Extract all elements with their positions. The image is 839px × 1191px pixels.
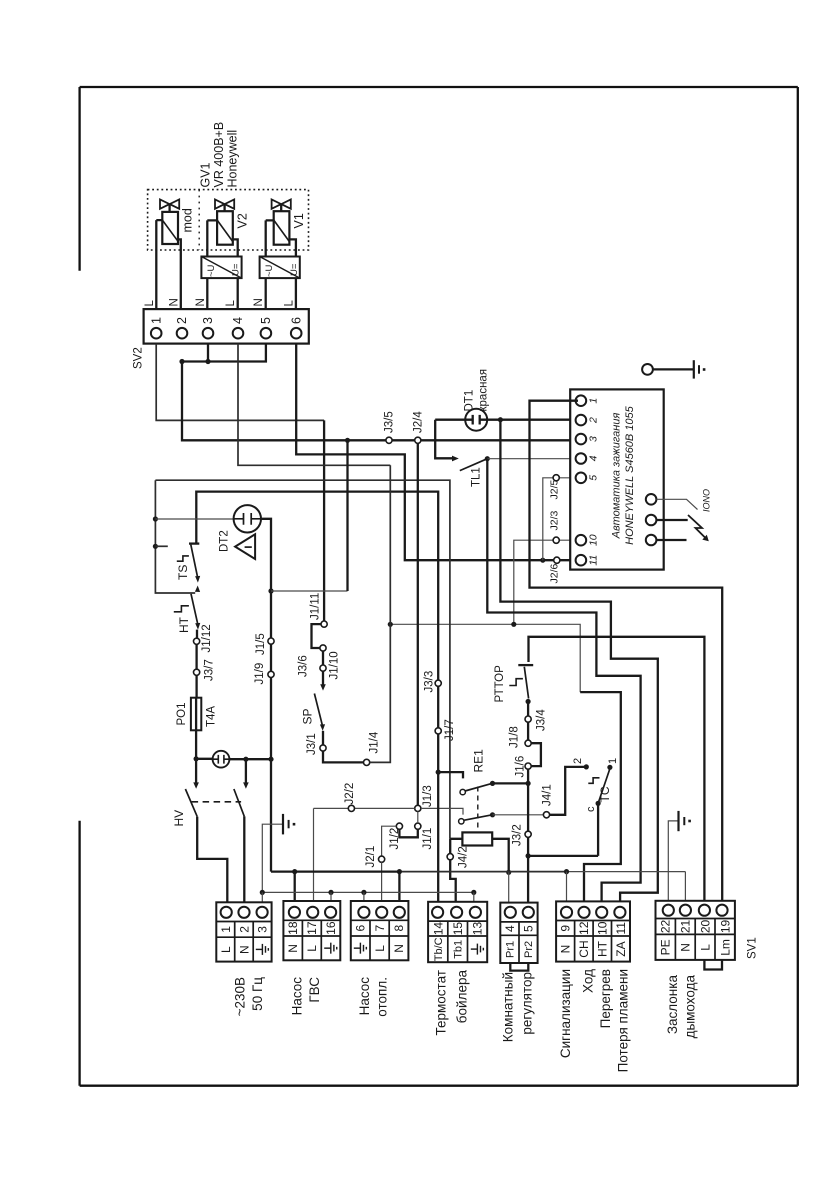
terminal block DHW pump earth mark cell 16: [324, 943, 337, 954]
svg-text:J2/6: J2/6: [549, 563, 561, 583]
connector J4/2: [447, 854, 453, 860]
connector J1/3: [415, 805, 421, 811]
frame border left lower segment: [78, 821, 80, 1086]
svg-text:Заслонка: Заслонка: [665, 975, 680, 1035]
junction N9: [564, 869, 569, 874]
terminal block heating pump terminal 6 circle: [358, 907, 369, 918]
ignition terminal 2 circle: [576, 415, 587, 426]
svg-text:L: L: [225, 300, 237, 307]
svg-text:14: 14: [431, 922, 445, 936]
connector J2/6: [554, 557, 560, 563]
svg-text:J3/2: J3/2: [512, 824, 524, 846]
HV right contact arrow: [243, 782, 249, 788]
TC contact 2: [584, 764, 589, 769]
ignition terminal 3 circle: [576, 434, 587, 445]
junction PTTOP arm bottom: [526, 699, 531, 704]
terminal block mains 230V terminal 1 circle: [221, 907, 232, 918]
junction CH line at J2/3 riser: [511, 622, 516, 627]
svg-text:J1/1: J1/1: [422, 828, 434, 850]
ignition electrode terminal C circle: [646, 535, 657, 546]
junction ground bus 13: [471, 890, 476, 895]
svg-text:бойлера: бойлера: [454, 970, 469, 1024]
ignition terminal 4 circle: [576, 453, 587, 464]
svg-text:N: N: [392, 944, 406, 953]
ignition electrode terminal A circle: [646, 494, 657, 505]
connector J2/1: [379, 856, 385, 862]
svg-text:20: 20: [698, 919, 712, 933]
ignition terminal 11 circle: [576, 555, 587, 566]
HV left contact arrow: [193, 782, 199, 788]
wire J1/5 to J1/9: [270, 644, 272, 671]
connector J3/3: [435, 680, 441, 686]
svg-text:RE1: RE1: [471, 749, 485, 773]
wire J3/6 to J1/10: [322, 651, 324, 665]
earth symbol top right: [693, 360, 695, 378]
svg-text:17: 17: [305, 921, 319, 935]
wire RE1 upper arm to J column: [493, 782, 529, 784]
wire Pr1 riser: [508, 872, 510, 902]
lamp DT1: [465, 409, 487, 431]
svg-text:IONO: IONO: [702, 489, 712, 512]
connector J1/5: [268, 638, 274, 644]
terminal block DHW pump body: [283, 901, 340, 960]
connector J2/4: [415, 437, 421, 443]
terminal block room regulator body: [500, 903, 537, 963]
valve symbol V2: [215, 199, 234, 208]
ignition electrode terminal B circle: [646, 515, 657, 526]
terminal block heating pump earth mark cell 6: [354, 943, 367, 954]
relay RE1 coil: [462, 832, 492, 845]
svg-text:8: 8: [392, 924, 406, 931]
wire DT2 to J1/5 column: [261, 519, 271, 638]
svg-text:6: 6: [354, 924, 368, 931]
wire RE1 lower arm to J4/1: [493, 814, 544, 816]
svg-text:HT: HT: [177, 616, 191, 633]
rectifier U2 for V1: [260, 257, 300, 279]
svg-text:J1/12: J1/12: [201, 624, 213, 652]
fuse PO1 T4A: [191, 698, 201, 731]
svg-text:6: 6: [289, 317, 303, 324]
PTTOP fixed contact bar: [518, 664, 533, 666]
svg-text:J1/5: J1/5: [255, 633, 267, 655]
wire J1/7 to boiler stat Tb/C: [437, 734, 439, 902]
svg-text:4: 4: [503, 925, 517, 932]
wire N riser from 440 line: [346, 440, 348, 591]
svg-text:J2/4: J2/4: [412, 411, 424, 433]
lamp DT2: [234, 505, 261, 532]
svg-text:Потеря пламени: Потеря пламени: [616, 969, 631, 1072]
HV mechanical link dashed: [192, 801, 242, 803]
junction TL1 arm pivot: [485, 456, 490, 461]
svg-text:L: L: [144, 300, 156, 307]
wire mod coil N to SV2-2: [178, 239, 181, 309]
junction TC pivot C: [596, 801, 601, 806]
svg-text:V1: V1: [292, 213, 306, 228]
junction DT2 column branch: [268, 588, 273, 593]
junction ground bus 6: [361, 890, 366, 895]
svg-text:J2/1: J2/1: [365, 846, 377, 868]
svg-text:HT: HT: [596, 940, 610, 957]
wire J3/3 to J1/7: [437, 686, 439, 728]
terminal block room regulator terminal 4 circle: [505, 907, 516, 918]
wire TS bracket: [155, 480, 195, 593]
wire J2/4 riser to J1/3: [417, 443, 419, 805]
wire N9 riser: [566, 872, 568, 902]
switch TC arm: [598, 770, 610, 804]
terminal block boiler thermostat terminal 15 circle: [451, 907, 462, 918]
connector J1/8: [525, 740, 531, 746]
svg-text:PO1: PO1: [176, 702, 188, 725]
svg-text:3: 3: [588, 436, 600, 442]
wire HT overheat signal from TL1 node: [487, 459, 640, 902]
earth symbol near HV: [282, 814, 284, 835]
rectifier U1 for V2: [201, 257, 241, 279]
terminal block heating pump terminal 7 circle: [376, 907, 387, 918]
ignition automat U3 box: [570, 389, 664, 569]
svg-text:TS: TS: [176, 565, 190, 580]
connector J1/12: [194, 638, 200, 644]
svg-text:Термостат: Термостат: [434, 970, 449, 1035]
svg-text:2: 2: [175, 317, 189, 324]
svg-text:L: L: [219, 946, 233, 953]
wire V2 coil to rectifier right: [233, 239, 238, 256]
valve symbol mod: [160, 199, 179, 208]
wire J1/11 riser: [323, 420, 325, 621]
switch SP arm: [314, 694, 322, 726]
svg-text:J1/8: J1/8: [509, 726, 521, 748]
wire J1/10 to SP contact: [322, 671, 324, 684]
wire L Lm jumper: [704, 960, 722, 970]
wire RE1 coil left to J4/2: [450, 839, 462, 854]
SV2 terminal 3 circle: [203, 328, 214, 339]
wire N21 riser: [684, 872, 686, 901]
svg-text:5: 5: [259, 317, 273, 324]
svg-text:T4A: T4A: [205, 706, 217, 727]
terminal block boiler thermostat terminal 14 circle: [432, 907, 443, 918]
svg-text:Lm: Lm: [718, 939, 732, 956]
spark gap symbol: [688, 515, 707, 540]
connector J1/9: [268, 671, 274, 677]
svg-text:J1/4: J1/4: [369, 731, 381, 753]
terminal block heating pump terminal 8 circle: [394, 907, 405, 918]
wire SV2-6 to ignition terminal 11: [296, 344, 578, 561]
svg-text:Honeywell: Honeywell: [226, 130, 240, 188]
wire ignition electrode lower: [656, 539, 686, 541]
SV2 terminal 6 circle: [291, 328, 302, 339]
svg-text:5: 5: [588, 475, 600, 481]
wire J1/1 to J1/3: [417, 812, 419, 824]
svg-text:J1/6: J1/6: [515, 756, 527, 778]
junction HV right branch: [243, 757, 248, 762]
junction J1/6 column at RE1 line: [526, 781, 531, 786]
thermostat TS arm: [191, 545, 198, 578]
terminal block SV1 flue damper terminal 22 circle: [663, 905, 674, 916]
ignition terminal 10 circle: [576, 535, 587, 546]
wire PE22 riser to earth: [668, 821, 678, 901]
svg-text:регулятор: регулятор: [520, 972, 535, 1035]
terminal block DHW pump terminal 16 circle: [325, 907, 336, 918]
svg-text:22: 22: [659, 919, 673, 933]
svg-text:Tb/C: Tb/C: [433, 937, 445, 961]
earth symbol near SV1: [677, 811, 679, 831]
ignition terminal 1 circle: [576, 395, 587, 406]
wire RE1 upper fixed stub: [438, 772, 463, 778]
svg-text:J1/7: J1/7: [444, 719, 456, 741]
connector J2/5: [553, 475, 559, 481]
svg-text:Перегрев: Перегрев: [598, 969, 613, 1028]
wire SV2-4 line to J1/4 riser: [238, 344, 390, 466]
connector J3/5: [386, 437, 392, 443]
svg-text:c: c: [585, 806, 597, 812]
terminal strip SV2 body: [144, 309, 309, 344]
frame border top: [80, 86, 798, 88]
wire PTTOP to J3/4: [527, 702, 529, 717]
TC contact 1: [607, 765, 612, 770]
junction N line to DT2 branch riser: [345, 438, 350, 443]
TS thermal notch: [177, 556, 189, 561]
wire ignition terminal 10 to J2/3 riser: [514, 540, 578, 624]
svg-text:J3/3: J3/3: [423, 671, 435, 693]
connector J1/7: [435, 728, 441, 734]
svg-text:~U: ~U: [264, 264, 275, 277]
PTTOP thermal notch: [509, 679, 523, 686]
wire V1 coil to rectifier right: [289, 239, 296, 256]
wire V1 rectifier N to SV2-5: [265, 278, 267, 309]
SP fixed contact arrow: [320, 684, 326, 690]
junction SV2-2 N link: [179, 359, 184, 364]
wire earth drop to ground bus: [262, 824, 283, 892]
junction SV2-3 N link: [205, 359, 210, 364]
svg-text:4: 4: [231, 317, 245, 324]
svg-text:~U: ~U: [206, 264, 217, 277]
wire J1/11 jog to J3/6: [312, 624, 322, 648]
wire ignition terminal 1 to Lm19 flue damper: [530, 401, 723, 901]
terminal block boiler thermostat terminal 13 circle: [470, 907, 481, 918]
junction TC line at J3/2 column: [526, 853, 531, 858]
junction bracket to DT2 line: [153, 516, 158, 521]
svg-text:3: 3: [256, 926, 270, 933]
terminal block SV1 flue damper terminal 20 circle: [699, 905, 710, 916]
frame border bottom: [80, 1085, 798, 1087]
svg-text:J1/10: J1/10: [329, 651, 341, 679]
coil V2: [217, 211, 233, 245]
SV2 terminal 4 circle: [233, 328, 244, 339]
svg-text:VR 400B+B: VR 400B+B: [212, 122, 226, 188]
connector J1/6: [525, 763, 531, 769]
svg-text:N: N: [253, 298, 265, 306]
wire J1/6 to Pr2: [527, 769, 529, 902]
wire J1/4 riser to SV2-4 line: [370, 465, 391, 762]
RE1 lower contact pivot: [459, 819, 464, 824]
wire Pr1 Pr2 jumper: [510, 963, 528, 971]
svg-text:J3/7: J3/7: [204, 659, 216, 681]
svg-text:21: 21: [679, 919, 693, 933]
junction N8: [397, 869, 402, 874]
wire HV left arm to L1: [197, 817, 227, 903]
switch PTTOP arm: [524, 667, 528, 699]
svg-text:PE: PE: [659, 939, 673, 955]
wire J2/1 to L7: [381, 862, 383, 901]
svg-text:J1/9: J1/9: [254, 663, 266, 685]
wire J3/4 to J1/8: [527, 722, 529, 740]
svg-text:4: 4: [588, 455, 600, 461]
svg-text:J3/4: J3/4: [535, 709, 547, 731]
svg-text:1: 1: [149, 317, 163, 324]
svg-text:J1/3: J1/3: [422, 785, 434, 807]
svg-text:Насос: Насос: [290, 977, 305, 1016]
svg-text:DT2: DT2: [219, 530, 231, 552]
terminal block signals terminal 9 circle: [561, 907, 572, 918]
junction RE1 lower arm: [490, 812, 495, 817]
connector J3/7: [194, 669, 200, 675]
svg-text:J3/1: J3/1: [306, 733, 318, 755]
svg-text:J1/11: J1/11: [310, 593, 322, 620]
svg-text:18: 18: [286, 921, 300, 935]
lamp HV indicator: [213, 751, 230, 768]
thermostat HT arm: [191, 594, 198, 625]
terminal block mains 230V terminal 2 circle: [238, 907, 249, 918]
switch HV left arm: [185, 789, 197, 817]
svg-text:Tb1: Tb1: [453, 940, 465, 959]
wire ignition electrode upper: [656, 519, 687, 521]
connector J3/4: [525, 716, 531, 722]
svg-text:Сигнализации: Сигнализации: [558, 969, 573, 1058]
svg-text:дымохода: дымохода: [683, 975, 698, 1039]
wire HV right contact: [245, 759, 247, 782]
wire J1/8 J1/6 jog: [531, 743, 541, 766]
svg-text:Ход: Ход: [581, 969, 596, 993]
svg-text:5: 5: [522, 925, 536, 932]
TC thermal notch: [588, 778, 599, 784]
svg-text:SV2: SV2: [133, 347, 145, 369]
svg-text:HONEYWELL S4560B 1055: HONEYWELL S4560B 1055: [624, 405, 636, 544]
terminal block boiler thermostat body: [428, 902, 487, 962]
svg-text:Pr2: Pr2: [523, 941, 535, 958]
wire SV2-5 to N link: [182, 344, 266, 362]
HT thermal notch: [174, 606, 189, 612]
GV1 dotted enclosure: [148, 190, 309, 250]
wire SV2-1 L line to J1/11 riser: [156, 344, 324, 421]
terminal block DHW pump terminal 18 circle: [289, 907, 300, 918]
valve symbol V1: [272, 199, 291, 208]
svg-text:РТТОР: РТТОР: [494, 665, 506, 703]
svg-text:J2/2: J2/2: [344, 783, 356, 805]
svg-text:13: 13: [471, 922, 485, 936]
svg-text:1: 1: [607, 758, 619, 764]
GV1 enclosure divider: [198, 190, 200, 250]
svg-text:J3/5: J3/5: [384, 411, 396, 433]
wire J1/9 column to N bus corner: [270, 678, 272, 872]
svg-text:CH: CH: [577, 940, 591, 957]
svg-text:9: 9: [559, 925, 573, 932]
wire J3/7 to fuse PO1: [195, 675, 197, 700]
wire V1 coil to rectifier left: [266, 220, 274, 256]
connector J4/1: [543, 812, 549, 818]
wire N8 riser: [398, 872, 400, 901]
junction RE1 upper arm: [490, 781, 495, 786]
switch TL1 arm: [460, 459, 488, 471]
wire J4/2 to Tb1 terminal: [450, 860, 456, 902]
wire V2 rectifier L to SV2-4: [237, 278, 239, 309]
wire ignition terminal 5 to J2/5 drop: [543, 478, 578, 560]
wire PE16 stub: [330, 892, 332, 901]
svg-text:GV1: GV1: [199, 162, 213, 187]
TL1 fixed contact arrow: [452, 456, 459, 462]
svg-text:DT1: DT1: [463, 390, 475, 412]
connector J2/3: [553, 537, 559, 543]
connector J1/1: [415, 823, 421, 829]
svg-text:16: 16: [324, 921, 338, 935]
svg-text:SP: SP: [301, 708, 315, 724]
svg-text:J3/6: J3/6: [297, 655, 309, 677]
wire ionisation electrode: [656, 499, 697, 509]
terminal block room regulator terminal 5 circle: [523, 907, 534, 918]
wire SV2-2 N to ignition terminal 3: [182, 362, 578, 441]
wire TL1 to ignition terminal 4: [487, 458, 578, 460]
wire DT1 to TL1 fixed contact: [435, 420, 452, 459]
RE1 mechanical link dashed: [477, 787, 479, 832]
connector J2/2: [348, 805, 354, 811]
wire PE13 stub: [473, 892, 475, 901]
svg-text:mod: mod: [180, 208, 194, 232]
svg-text:Насос: Насос: [357, 977, 372, 1016]
terminal block heating pump body: [351, 901, 409, 960]
svg-text:2: 2: [588, 417, 600, 424]
wire L17 riser: [313, 808, 315, 901]
junction column at HV lamp line: [268, 757, 273, 762]
frame border left upper segment: [78, 87, 80, 271]
svg-text:11: 11: [614, 922, 628, 935]
junction coil right at N bus: [506, 870, 511, 875]
SV2 terminal 5 circle: [261, 328, 272, 339]
connector J1/4: [364, 759, 370, 765]
connector J3/1: [320, 745, 326, 751]
wire RE1 coil right to N bus: [492, 839, 509, 873]
svg-text:U=: U=: [289, 263, 300, 276]
terminal block signals terminal 10 circle: [596, 907, 607, 918]
terminal block mains 230V terminal 3 circle: [257, 907, 268, 918]
svg-text:Автоматика зажигания: Автоматика зажигания: [611, 413, 623, 540]
svg-text:Pr1: Pr1: [505, 941, 517, 958]
junction bracket stub: [153, 544, 158, 549]
wire bracket top to RE1 coil riser: [155, 480, 450, 839]
wire N bus: [271, 870, 399, 872]
terminal block signals terminal 11 circle: [614, 907, 625, 918]
wire ground bus: [262, 891, 474, 893]
svg-text:TC: TC: [598, 786, 612, 802]
switch HV right arm: [234, 789, 244, 816]
wire HV right arm to N2: [243, 816, 245, 902]
svg-text:отопл.: отопл.: [375, 977, 390, 1017]
connector J1/11: [321, 621, 327, 627]
coil V1: [274, 211, 290, 245]
svg-text:3: 3: [201, 317, 215, 324]
connector J1/10: [320, 665, 326, 671]
terminal block signals body: [556, 901, 630, 961]
svg-text:~230В: ~230В: [233, 977, 248, 1016]
frame border right: [797, 87, 799, 1086]
connector J3/6: [320, 645, 326, 651]
svg-text:1: 1: [588, 398, 600, 404]
wire mod coil L to SV2-1: [156, 220, 162, 309]
wire TC C line: [528, 803, 598, 856]
svg-text:ZA: ZA: [614, 941, 628, 956]
terminal block mains 230V body: [216, 902, 271, 961]
wire J3/1 to J1/4: [323, 751, 364, 762]
ground terminal circle near ignition box: [642, 364, 653, 375]
svg-text:N: N: [168, 298, 180, 306]
junction ground bus 16: [328, 890, 333, 895]
